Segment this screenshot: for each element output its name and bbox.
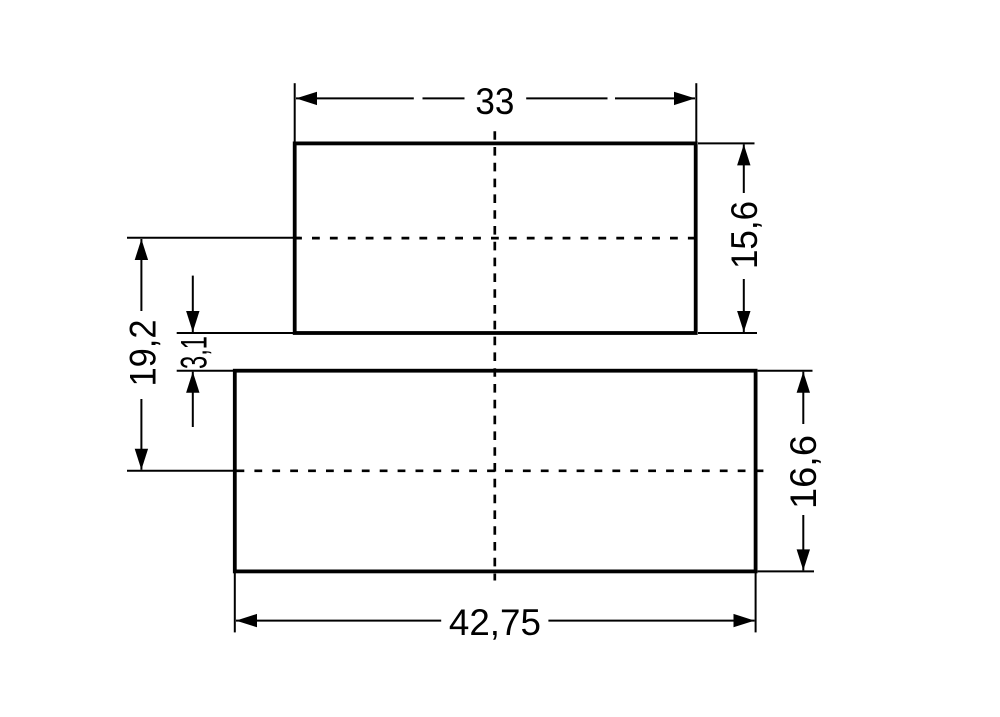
svg-text:15,6: 15,6 (724, 201, 765, 269)
extension line left of dimension 42,75 (234, 571, 236, 632)
arrowhead bottom of dimension 16,6 (797, 549, 810, 570)
extension line bottom of dimension 15,6 (698, 332, 757, 334)
extension line right of dimension 42,75 (755, 571, 757, 632)
body outline: lower rectangle (235, 371, 756, 572)
svg-text:33: 33 (475, 81, 514, 122)
extension line bottom of dimension 3,1 (177, 370, 235, 372)
arrowhead top of dimension 19,2 (135, 239, 148, 260)
extension line top of dimension 3,1 (177, 332, 295, 334)
horizontal dashed centerline of lower rectangle (237, 469, 767, 472)
extension line left of dimension 33 (294, 83, 296, 143)
vertical dashed centerline (493, 131, 496, 580)
arrowhead upper of dimension 3,1 (186, 311, 199, 332)
dimension line lower of 3,1 (arrow pointing up) (192, 372, 194, 427)
arrowhead top of dimension 15,6 (737, 144, 750, 165)
svg-text:42,75: 42,75 (449, 602, 541, 643)
extension line bottom of dimension 16,6 (758, 570, 814, 572)
extension line right of dimension 33 (695, 83, 697, 143)
dimension line 33 (296, 97, 695, 99)
extension line top of dimension 19,2 (127, 237, 300, 239)
dimension line 16,6 (802, 372, 804, 571)
dimension line upper of 3,1 (arrow pointing down) (192, 276, 194, 332)
svg-text:3,1: 3,1 (174, 336, 215, 369)
extension line bottom of dimension 19,2 (127, 470, 235, 472)
dimension line 42,75 (236, 620, 755, 622)
arrowhead right of dimension 42,75 (734, 614, 755, 627)
arrowhead left of dimension 33 (296, 92, 317, 105)
arrowhead left of dimension 42,75 (236, 614, 257, 627)
arrowhead right of dimension 33 (674, 92, 695, 105)
arrowhead bottom of dimension 15,6 (737, 311, 750, 332)
body outline: upper rectangle (295, 143, 696, 333)
horizontal dashed centerline of upper rectangle (294, 237, 705, 240)
dimension line 19,2 (140, 239, 142, 470)
arrowhead bottom of dimension 19,2 (135, 449, 148, 470)
extension line top of dimension 15,6 (698, 142, 755, 144)
svg-text:16,6: 16,6 (783, 435, 824, 509)
arrowhead lower of dimension 3,1 (186, 372, 199, 393)
extension line top of dimension 16,6 (758, 370, 813, 372)
svg-text:19,2: 19,2 (123, 320, 164, 387)
dimension line 15,6 (743, 144, 745, 332)
arrowhead top of dimension 16,6 (797, 372, 810, 393)
